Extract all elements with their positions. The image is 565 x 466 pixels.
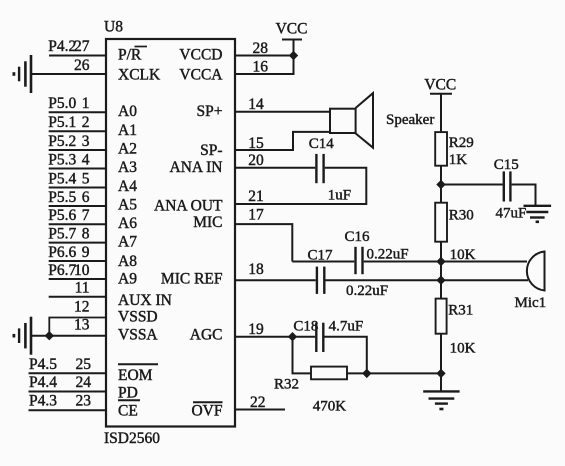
- svg-text:P4.2: P4.2: [48, 38, 76, 55]
- svg-text:10K: 10K: [450, 247, 476, 263]
- svg-text:470K: 470K: [313, 399, 347, 415]
- svg-text:A8: A8: [118, 253, 137, 270]
- svg-text:21: 21: [248, 188, 264, 205]
- svg-text:Speaker: Speaker: [386, 112, 434, 128]
- svg-text:P4.4: P4.4: [29, 374, 57, 391]
- svg-text:ISD2560: ISD2560: [104, 430, 160, 447]
- svg-text:P4.3: P4.3: [29, 393, 57, 410]
- svg-text:0.22uF: 0.22uF: [346, 283, 388, 299]
- svg-text:R31: R31: [448, 303, 473, 319]
- svg-text:ANA OUT: ANA OUT: [154, 198, 223, 215]
- svg-text:11: 11: [75, 280, 90, 297]
- svg-text:A6: A6: [118, 215, 137, 232]
- svg-text:SP-: SP-: [200, 142, 222, 159]
- svg-text:VCC: VCC: [424, 77, 456, 94]
- svg-text:EOM: EOM: [118, 367, 153, 384]
- svg-text:20: 20: [248, 152, 264, 169]
- svg-text:P5.1: P5.1: [48, 114, 76, 131]
- svg-text:P5.3: P5.3: [48, 151, 76, 168]
- svg-text:22: 22: [250, 394, 266, 411]
- svg-text:R29: R29: [449, 135, 474, 151]
- svg-text:1: 1: [82, 95, 90, 112]
- svg-text:A9: A9: [118, 270, 137, 287]
- svg-text:4.7uF: 4.7uF: [329, 319, 364, 335]
- svg-text:18: 18: [248, 261, 264, 278]
- svg-text:12: 12: [74, 299, 90, 316]
- svg-text:R32: R32: [274, 376, 299, 392]
- svg-text:9: 9: [82, 244, 90, 261]
- svg-text:ANA IN: ANA IN: [170, 159, 223, 176]
- svg-text:19: 19: [248, 321, 264, 338]
- svg-text:A4: A4: [118, 178, 137, 195]
- svg-text:10: 10: [74, 262, 90, 279]
- svg-text:AGC: AGC: [190, 327, 223, 344]
- svg-text:C16: C16: [345, 229, 371, 245]
- svg-text:OVF: OVF: [191, 402, 222, 419]
- svg-text:14: 14: [248, 96, 264, 113]
- svg-text:7: 7: [82, 207, 90, 224]
- svg-text:VCCA: VCCA: [179, 66, 223, 83]
- svg-text:A0: A0: [118, 103, 137, 120]
- svg-text:P4.5: P4.5: [29, 356, 57, 373]
- svg-text:AUX IN: AUX IN: [118, 292, 172, 309]
- svg-text:3: 3: [82, 133, 90, 150]
- svg-text:VSSD: VSSD: [118, 309, 158, 326]
- svg-text:17: 17: [248, 207, 264, 224]
- svg-text:P5.2: P5.2: [48, 133, 76, 150]
- svg-text:P/R: P/R: [118, 47, 142, 64]
- svg-text:A2: A2: [118, 141, 137, 158]
- svg-text:27: 27: [74, 38, 90, 55]
- svg-text:C18: C18: [293, 319, 318, 335]
- svg-text:1uF: 1uF: [328, 187, 351, 203]
- svg-text:P6.7: P6.7: [48, 262, 76, 279]
- svg-text:28: 28: [253, 40, 269, 57]
- svg-text:R30: R30: [449, 208, 474, 224]
- svg-text:MIC: MIC: [193, 214, 222, 231]
- svg-text:C14: C14: [309, 136, 335, 152]
- svg-text:24: 24: [76, 374, 92, 391]
- svg-text:C17: C17: [308, 248, 334, 264]
- svg-text:47uF: 47uF: [496, 205, 527, 221]
- svg-text:25: 25: [76, 356, 92, 373]
- svg-text:A7: A7: [118, 233, 137, 250]
- svg-text:VSSA: VSSA: [118, 327, 158, 344]
- svg-text:23: 23: [76, 393, 92, 410]
- svg-text:SP+: SP+: [197, 103, 223, 120]
- svg-text:26: 26: [74, 57, 90, 74]
- svg-text:5: 5: [82, 170, 90, 187]
- svg-text:6: 6: [82, 189, 90, 206]
- svg-text:XCLK: XCLK: [118, 66, 161, 83]
- svg-text:CE: CE: [118, 403, 138, 420]
- svg-text:13: 13: [74, 317, 90, 334]
- svg-text:A3: A3: [118, 159, 137, 176]
- svg-text:P6.6: P6.6: [48, 244, 76, 261]
- svg-text:0.22uF: 0.22uF: [367, 246, 409, 262]
- svg-text:P5.5: P5.5: [48, 189, 76, 206]
- svg-text:A5: A5: [118, 197, 137, 214]
- svg-text:VCCD: VCCD: [179, 47, 222, 64]
- svg-text:PD: PD: [118, 385, 138, 402]
- svg-text:C15: C15: [494, 157, 519, 173]
- svg-text:1K: 1K: [449, 152, 468, 168]
- svg-text:P5.6: P5.6: [48, 207, 76, 224]
- svg-text:P5.7: P5.7: [48, 225, 76, 242]
- svg-text:Mic1: Mic1: [515, 295, 547, 311]
- svg-text:4: 4: [82, 151, 90, 168]
- svg-text:16: 16: [253, 58, 269, 75]
- svg-text:U8: U8: [104, 19, 123, 36]
- svg-text:10K: 10K: [450, 341, 476, 357]
- svg-text:2: 2: [82, 114, 90, 131]
- svg-text:P5.0: P5.0: [48, 95, 76, 112]
- svg-text:MIC REF: MIC REF: [161, 270, 223, 287]
- svg-text:P5.4: P5.4: [48, 170, 76, 187]
- svg-text:A1: A1: [118, 122, 137, 139]
- svg-text:8: 8: [82, 225, 90, 242]
- svg-text:VCC: VCC: [276, 21, 308, 38]
